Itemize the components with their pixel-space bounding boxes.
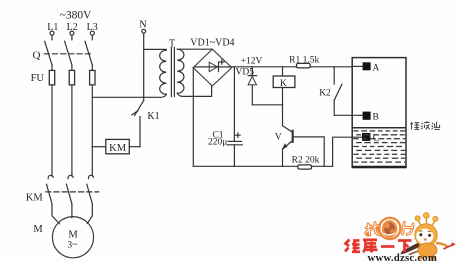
wire phase1 vertical	[51, 65, 53, 176]
wire K2 to electrode B	[334, 114, 362, 116]
electrode C	[362, 133, 370, 141]
relay contact K2 (NO)	[334, 67, 342, 116]
transformer secondary winding	[177, 49, 184, 93]
svg-text:220μ: 220μ	[208, 138, 227, 148]
switch Q coupling dashed link	[44, 53, 90, 55]
char 库	[363, 240, 378, 253]
circle logo	[379, 218, 400, 239]
svg-text:FU: FU	[31, 73, 45, 84]
char 储	[410, 122, 419, 130]
wire secondary bottom to bridge bottom	[177, 86, 211, 96]
liquid surface	[352, 127, 406, 129]
wire DC plus rail	[232, 66, 352, 68]
char 下	[398, 241, 412, 253]
svg-text:3~: 3~	[67, 240, 77, 250]
svg-text:www.dzsc.com: www.dzsc.com	[368, 252, 438, 262]
svg-text:M: M	[33, 224, 43, 235]
switch Q blade pole2	[65, 41, 72, 65]
terminal L1	[47, 22, 58, 40]
char 找	[365, 222, 381, 237]
svg-text:+12V: +12V	[241, 57, 263, 67]
svg-text:M: M	[68, 230, 78, 241]
electrode A	[363, 62, 371, 70]
wire L3 to transformer primary bottom	[92, 94, 166, 97]
terminal L2	[67, 22, 78, 40]
electrode B	[363, 112, 371, 120]
tank bottom heavy edge	[352, 166, 406, 168]
watermark brush	[400, 238, 433, 255]
fuse FU1	[49, 70, 54, 85]
wire phase3 vertical	[91, 65, 93, 176]
svg-text:V: V	[275, 132, 282, 142]
wire N to primary top	[144, 48, 167, 50]
contactor KM main contact arc2	[68, 175, 73, 178]
contactor KM main contact arc1	[48, 175, 53, 178]
watermark text 维库一下	[345, 240, 412, 253]
wire base to node	[294, 137, 324, 166]
terminal L3	[87, 22, 98, 40]
wire to electrode A	[352, 65, 362, 67]
wire secondary top to bridge	[177, 48, 212, 50]
char 一	[381, 245, 395, 248]
svg-text:KM: KM	[109, 143, 127, 154]
svg-text:K2: K2	[319, 88, 331, 98]
motor M circle	[52, 217, 93, 258]
contactor coil KM	[106, 139, 130, 153]
svg-text:VD1~VD4: VD1~VD4	[190, 38, 234, 49]
wire VD5 to K bottom node	[252, 104, 282, 106]
relay coil K	[282, 67, 284, 76]
char 池	[432, 122, 440, 130]
wire DC minus from bridge left corner	[192, 68, 194, 167]
contactor KM main blade3	[87, 184, 93, 204]
svg-text:A: A	[373, 63, 380, 73]
wire motor lead3	[87, 204, 92, 224]
wire motor lead1	[52, 204, 60, 224]
fuse FU3	[90, 70, 95, 85]
wire ground rail	[193, 165, 332, 167]
transistor V	[282, 105, 293, 167]
terminal N	[139, 20, 146, 36]
svg-text:VD5: VD5	[236, 67, 255, 77]
wire phase2 vertical	[71, 65, 73, 176]
char 液	[421, 121, 429, 129]
tank 储液池	[352, 58, 406, 168]
wire L3 to KM coil	[92, 146, 106, 148]
watermark logo 找芯片	[365, 218, 414, 239]
svg-text:R2 20k: R2 20k	[292, 156, 320, 166]
wire motor lead2	[71, 204, 73, 218]
char 维	[345, 240, 360, 253]
contactor KM coupling dashed link	[46, 191, 99, 193]
switch Q blade pole1	[45, 41, 52, 65]
svg-text:K: K	[280, 79, 287, 89]
wire N vertical	[143, 36, 145, 97]
svg-text:~380V: ~380V	[60, 9, 92, 21]
capacitor C1	[227, 67, 242, 167]
label 储液池	[410, 121, 440, 129]
transformer core	[170, 48, 172, 97]
wire K1 to KM coil	[129, 146, 140, 148]
transformer primary winding	[160, 50, 167, 94]
fuse FU2	[69, 70, 74, 85]
svg-text:B: B	[373, 113, 379, 123]
watermark mascot	[415, 213, 456, 261]
liquid hatch	[353, 131, 405, 162]
contactor KM main blade2	[66, 184, 72, 204]
char 片	[403, 222, 414, 235]
contactor KM main contact arc3	[88, 175, 93, 178]
wire to electrode C	[333, 137, 362, 166]
relay contact K1 (NC)	[132, 97, 144, 146]
svg-text:KM: KM	[26, 193, 44, 204]
switch Q blade pole3	[85, 41, 92, 65]
diode VD5	[248, 67, 257, 105]
svg-text:K1: K1	[147, 111, 159, 122]
contactor KM main blade1	[47, 184, 53, 204]
svg-text:Q: Q	[33, 49, 41, 61]
